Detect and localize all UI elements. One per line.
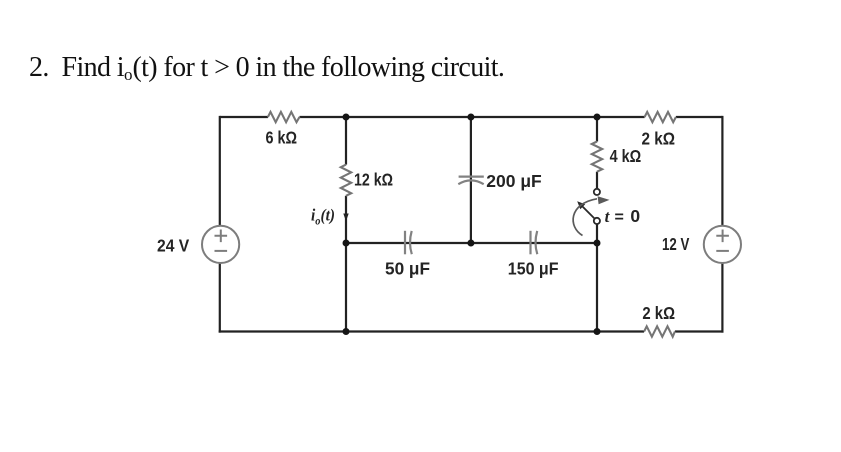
svg-text:50 μF: 50 μF	[385, 259, 430, 279]
capacitor 200uF plates	[459, 176, 484, 178]
node mid-center	[467, 240, 474, 247]
current arrow io(t) on 12k branch	[343, 214, 348, 222]
wire left branch upper	[219, 116, 221, 226]
svg-text:24 V: 24 V	[157, 236, 189, 256]
svg-text:6 kΩ: 6 kΩ	[266, 128, 298, 148]
wire switch bottom contact to node	[596, 224, 598, 243]
svg-text:2 kΩ: 2 kΩ	[642, 303, 675, 323]
wire middle rail (continuous through caps)	[346, 242, 597, 244]
resistor R 2k bottom zigzag	[644, 326, 675, 336]
node mid-left	[343, 240, 350, 247]
resistor R 2k top zigzag	[645, 112, 676, 122]
voltage source 12V	[704, 226, 741, 263]
wire right branch lower	[721, 263, 723, 333]
svg-text:io(t): io(t)	[311, 205, 335, 227]
wire mid branch continuation x=597	[596, 243, 598, 332]
svg-text:=: =	[615, 209, 624, 226]
svg-text:200 μF: 200 μF	[486, 171, 542, 191]
switch contact bottom	[594, 218, 600, 224]
node top of 4k	[594, 114, 601, 121]
resistor R 6k zigzag	[268, 112, 300, 122]
wire top rail left segment	[220, 116, 268, 118]
wire 12k branch lower	[345, 196, 347, 243]
switch contact top	[594, 189, 600, 195]
wire top rail mid segment	[300, 116, 645, 118]
resistor R 12k zigzag	[341, 165, 351, 196]
svg-text:12 V: 12 V	[662, 234, 690, 254]
wire right branch upper	[721, 116, 723, 226]
capacitor 150uF plates	[529, 231, 531, 255]
wire bottom rail left segment	[219, 330, 644, 332]
resistor R 4k zigzag	[592, 142, 602, 172]
svg-text:t: t	[605, 207, 611, 226]
svg-text:150 μF: 150 μF	[508, 259, 559, 279]
svg-text:0: 0	[630, 206, 640, 226]
node bottom-right	[594, 328, 601, 335]
wire left branch lower	[219, 263, 221, 333]
svg-text:4 kΩ: 4 kΩ	[610, 146, 642, 166]
wire 4k to switch top contact	[596, 172, 598, 189]
svg-text:12 kΩ: 12 kΩ	[354, 170, 393, 190]
switch blade	[583, 207, 595, 219]
wire top rail right segment	[676, 116, 723, 118]
svg-text:2 kΩ: 2 kΩ	[642, 128, 676, 148]
node mid-right	[594, 240, 601, 247]
voltage source 24V	[202, 226, 239, 263]
label t = 0	[605, 206, 641, 226]
capacitor 50uF plates	[404, 231, 406, 255]
node top of 12k	[343, 114, 350, 121]
node top of 200uF	[467, 114, 474, 121]
wire 200uF branch (continuous through cap)	[470, 117, 472, 243]
wire bottom rail right segment	[675, 330, 724, 332]
wire 12k branch upper	[345, 117, 347, 165]
wire 4k branch upper	[596, 117, 598, 142]
wire mid branch continuation x=346	[345, 243, 347, 332]
switch motion arc	[573, 199, 597, 236]
node bottom-left	[343, 328, 350, 335]
